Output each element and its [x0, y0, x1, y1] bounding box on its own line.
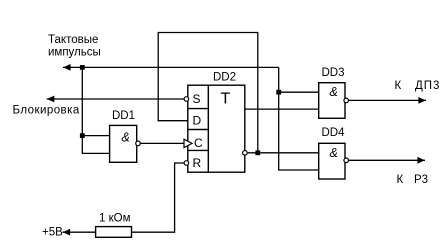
pin C (dynamic) of DD2	[184, 136, 203, 150]
resistor R1 1 кОм	[96, 213, 132, 238]
svg-text:D: D	[193, 114, 202, 128]
pin R (inverting) of DD2	[184, 156, 201, 170]
svg-text:DD2: DD2	[213, 72, 236, 84]
svg-text:Блокировка: Блокировка	[13, 105, 80, 117]
wire: Q-bar output to DD4 upper input	[248, 152, 319, 154]
pin Q-bar output circle of DD2	[243, 151, 248, 156]
svg-text:S: S	[193, 92, 201, 106]
svg-text:T: T	[221, 91, 231, 108]
wire: DD2 R input to resistor	[132, 163, 185, 232]
junction: feedback joins Q-bar line	[255, 150, 260, 155]
svg-text:&: &	[330, 146, 338, 160]
svg-text:импульсы: импульсы	[48, 47, 101, 59]
wire: branch to DD1 top input	[82, 135, 109, 137]
svg-text:ДП3: ДП3	[415, 80, 440, 92]
logic gate DD4	[319, 127, 349, 179]
junction: DD3 upper input branch	[276, 90, 281, 95]
svg-text:К: К	[397, 174, 404, 186]
logic gate DD3	[319, 67, 349, 118]
wire: vertical from clock line down to DD1 inputs	[82, 67, 109, 153]
node: Тактовые импульсы label	[48, 34, 101, 59]
pin S (inverting) of DD2	[184, 92, 200, 106]
svg-text:DD3: DD3	[322, 67, 345, 79]
svg-text:R: R	[193, 156, 202, 170]
svg-text:К: К	[395, 80, 402, 92]
svg-text:&: &	[122, 131, 130, 145]
wire: DD1 output to DD2 C input	[140, 142, 184, 144]
junction: DD1 top input branch	[80, 133, 85, 138]
node: К Р3 label	[397, 174, 429, 186]
wire: Блокировка line to S input, left arrow	[47, 96, 185, 103]
svg-text:Тактовые: Тактовые	[48, 34, 98, 46]
svg-text:DD4: DD4	[322, 127, 346, 139]
svg-text:C: C	[194, 136, 203, 150]
junction: clock line / left vertical	[80, 65, 85, 70]
wire: D feedback loop (Q-bar to D input over the top)	[158, 33, 258, 153]
logic gate DD1	[110, 110, 141, 162]
wire: Q output to DD3 lower input	[245, 108, 319, 110]
wire: resistor to +5V with left arrow	[63, 229, 96, 236]
svg-text:DD1: DD1	[112, 110, 135, 122]
svg-text:&: &	[330, 85, 338, 99]
wire: clock branch down right side to DD3 upper and DD4 lower inputs	[279, 67, 319, 170]
wire: branch to DD3 upper input	[279, 91, 319, 93]
svg-text:Р3: Р3	[414, 174, 428, 186]
svg-text:+5В: +5В	[42, 227, 63, 239]
flip-flop DD2	[188, 72, 245, 173]
node: К ДП3 label	[395, 80, 441, 92]
svg-text:1 кОм: 1 кОм	[99, 213, 131, 225]
wire: clock line (Тактовые импульсы) with left arrow	[63, 64, 279, 71]
wire: DD3 output with right arrow	[349, 97, 427, 104]
wire: DD4 output with right arrow	[349, 157, 426, 164]
